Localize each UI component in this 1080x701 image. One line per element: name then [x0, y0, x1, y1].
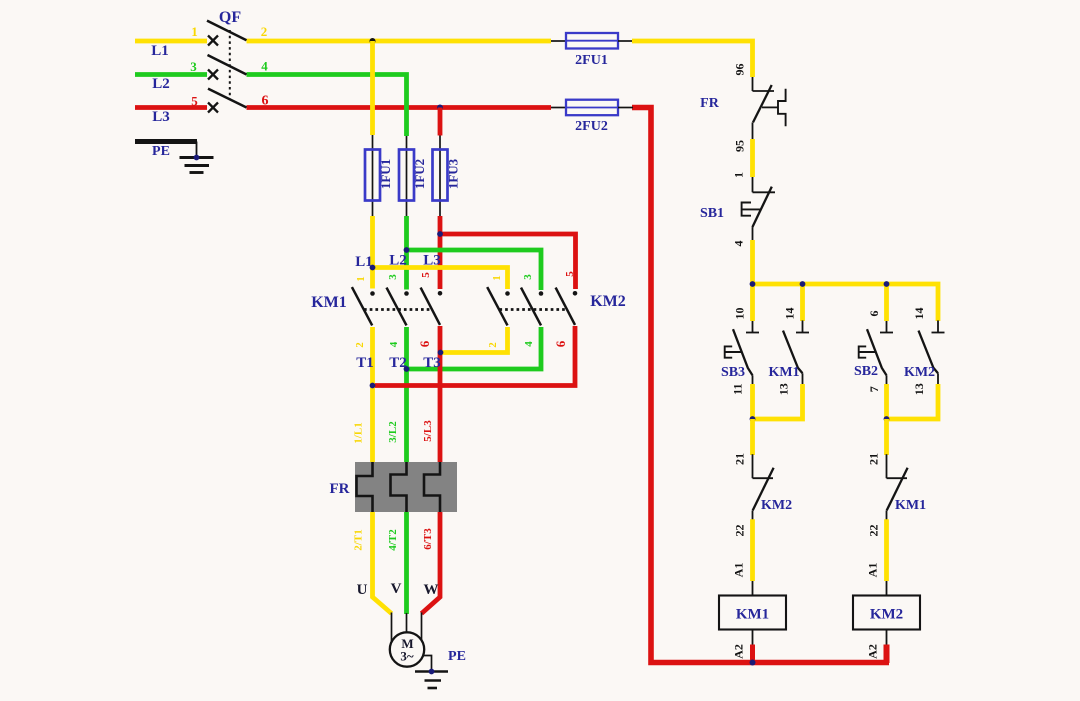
KM2 NC blade	[753, 468, 774, 511]
svg-text:L1: L1	[151, 43, 169, 59]
PE ground bars	[180, 158, 214, 173]
KM1 NC bottom lead	[886, 510, 888, 520]
KM1 aux bottom lead	[802, 373, 804, 385]
contactor KM2 pole1 dot	[505, 291, 510, 296]
svg-text:2: 2	[487, 342, 499, 348]
wire L1 yellow after QF to 2FU1	[247, 39, 552, 44]
svg-text:W: W	[424, 582, 439, 598]
node T3 crossover dot	[438, 350, 444, 356]
svg-text:21: 21	[732, 453, 746, 465]
svg-text:KM1: KM1	[311, 294, 347, 311]
svg-text:13: 13	[912, 383, 926, 395]
SB1 actuator bracket	[742, 203, 751, 216]
svg-text:2FU1: 2FU1	[575, 53, 608, 68]
svg-text:11: 11	[730, 384, 744, 395]
svg-text:SB2: SB2	[854, 364, 878, 379]
FR contact top lead	[752, 77, 754, 91]
KM2 NC bottom lead	[752, 510, 754, 520]
breaker QF linkage dashed	[229, 30, 231, 100]
svg-text:14: 14	[783, 308, 797, 320]
svg-text:KM2: KM2	[590, 293, 626, 310]
svg-text:4: 4	[261, 59, 268, 74]
PE bar	[135, 139, 197, 144]
svg-text:U: U	[357, 582, 368, 598]
svg-text:2: 2	[354, 342, 366, 348]
wire yellow drop to 1FU1	[370, 41, 375, 135]
contactor KM2 pole1 blade	[487, 287, 507, 325]
breaker QF pole 2 X contact	[208, 70, 218, 80]
contactor KM2 pole2 blade	[521, 288, 541, 326]
svg-text:1: 1	[732, 172, 746, 178]
fuse 2FU1 right lead	[618, 40, 632, 42]
node T2 dot	[404, 366, 410, 372]
fuse 1FU1 lead	[372, 135, 374, 216]
thermal relay FR block	[355, 462, 457, 512]
wire yellow KM2 NC to coil KM1	[750, 519, 755, 581]
svg-text:13: 13	[776, 383, 790, 395]
SB3 top lead	[752, 321, 754, 333]
breaker QF pole 1 blade	[207, 21, 247, 41]
wire red branch to KM2 pole3	[440, 234, 576, 289]
contactor KM2 pole3 blade	[556, 288, 575, 325]
svg-text:A2: A2	[732, 644, 746, 659]
SB1 actuator stem	[742, 208, 761, 210]
node bus dot 2	[800, 281, 806, 287]
wire red coil KM2 stub	[884, 645, 890, 664]
wire yellow KM2 pole1 crossover to T3	[441, 327, 508, 353]
svg-text:3: 3	[190, 59, 197, 74]
svg-text:A2: A2	[866, 644, 880, 659]
KM1 aux tick	[796, 332, 809, 334]
svg-text:21: 21	[866, 453, 880, 465]
fuse 2FU1 left lead	[551, 40, 566, 42]
wire red FR to W	[422, 512, 441, 614]
svg-text:PE: PE	[152, 144, 170, 159]
wire green 1FU2 to KM1 pole2	[404, 216, 409, 290]
KM1 NC top lead	[886, 454, 888, 478]
svg-text:A1: A1	[866, 563, 880, 578]
breaker QF pole 3 X contact	[208, 103, 218, 113]
svg-text:1FU1: 1FU1	[378, 159, 393, 189]
contactor KM1 pole2 dot	[404, 291, 409, 296]
motor PE lead	[424, 656, 432, 672]
svg-text:L2: L2	[389, 253, 407, 269]
fuse 1FU3 lead	[439, 136, 441, 217]
wire green branch to KM2 pole2	[407, 250, 542, 290]
svg-text:2FU2: 2FU2	[575, 119, 608, 134]
wire yellow branch to KM2 pole1	[373, 268, 508, 290]
wire yellow KM2 aux to node	[884, 384, 938, 419]
node green branch dot	[404, 247, 410, 253]
KM2 aux blade	[919, 331, 939, 374]
contactor KM1 pole2 blade	[387, 288, 407, 326]
svg-text:1FU2: 1FU2	[412, 159, 427, 189]
SB3 tick	[746, 332, 759, 334]
node T1 crossover dot	[370, 383, 376, 389]
wire yellow KM1 NC to coil KM2	[884, 519, 889, 581]
KM1 NC blade	[887, 468, 908, 511]
FR heater element 2	[391, 462, 407, 512]
svg-text:6/T3: 6/T3	[422, 528, 434, 550]
SB1 top lead	[752, 177, 754, 192]
svg-text:3: 3	[387, 274, 399, 280]
svg-text:SB1: SB1	[700, 206, 724, 221]
KM1 aux top lead	[802, 320, 804, 332]
wire yellow 95 segment	[750, 139, 755, 177]
svg-text:KM1: KM1	[895, 498, 926, 513]
motor lead U	[391, 613, 393, 644]
svg-text:L3: L3	[152, 109, 170, 125]
wire yellow FR to U	[373, 512, 392, 614]
coil KM2 bottom lead	[886, 630, 888, 647]
node bus dot 3	[884, 281, 890, 287]
node L3 branch dot	[437, 105, 443, 111]
wire yellow SB2 to node	[884, 384, 889, 421]
contactor KM2 pole2 dot	[539, 291, 544, 296]
wire yellow KM1 aux to node	[750, 384, 802, 419]
KM2 NC top lead	[752, 454, 754, 478]
KM1 aux blade	[783, 331, 803, 374]
svg-text:6: 6	[417, 340, 432, 347]
svg-text:L1: L1	[355, 254, 373, 270]
svg-text:L3: L3	[423, 253, 441, 269]
svg-text:7: 7	[867, 386, 881, 392]
svg-text:T3: T3	[423, 355, 441, 371]
breaker QF pole 3 blade	[208, 89, 247, 108]
node red branch dot	[437, 231, 443, 237]
svg-text:3: 3	[522, 274, 534, 280]
contactor KM1 pole3 dot	[438, 291, 443, 296]
FR thermal paddle	[778, 89, 786, 127]
contactor KM1 pole1 dot	[370, 291, 375, 296]
SB2 actuator bracket	[859, 346, 867, 357]
fuse 2FU1	[566, 33, 618, 49]
SB2 top lead	[886, 321, 888, 333]
KM2 aux tick	[932, 332, 945, 334]
FR heater element 3	[424, 462, 440, 512]
motor lead W	[421, 613, 423, 644]
svg-text:4: 4	[523, 341, 535, 347]
contactor KM2 pole3 dot	[573, 291, 578, 296]
node L1 branch dot	[370, 38, 376, 44]
svg-text:KM2: KM2	[870, 607, 903, 623]
svg-text:95: 95	[733, 140, 747, 152]
fuse 1FU3	[433, 150, 448, 201]
svg-text:5: 5	[420, 272, 432, 278]
svg-text:KM1: KM1	[736, 607, 769, 623]
wire red after 2FU2 down to bottom bus	[632, 108, 889, 663]
fuse 2FU2	[566, 100, 618, 116]
contactor KM2 linkage dashed	[499, 308, 566, 311]
contactor KM1 pole3 blade	[421, 288, 440, 325]
wire red KM1 pole3 down to FR	[438, 326, 443, 462]
wire green KM1 pole2 down to FR	[404, 327, 409, 462]
svg-text:5: 5	[564, 271, 576, 277]
svg-text:T2: T2	[389, 355, 407, 371]
svg-text:2/T1: 2/T1	[353, 529, 365, 550]
svg-text:L2: L2	[152, 76, 170, 92]
wire L3 red incoming	[135, 105, 207, 110]
svg-text:T1: T1	[356, 355, 374, 371]
fuse 2FU1 middle line	[566, 40, 618, 42]
coil KM1 top lead	[752, 581, 754, 596]
KM2 aux bottom lead	[937, 373, 939, 385]
svg-text:1/L1: 1/L1	[353, 422, 365, 443]
FR contact link to paddle	[762, 106, 778, 108]
svg-text:V: V	[391, 581, 402, 597]
wire green FR to V	[404, 512, 409, 614]
wire yellow SB1 to bus node	[750, 240, 755, 286]
PE ground stem	[196, 142, 198, 158]
FR heater element 1	[357, 462, 373, 512]
PE node dot	[194, 155, 200, 161]
svg-text:KM2: KM2	[904, 365, 935, 380]
wire red drop to 1FU3	[438, 108, 443, 136]
motor M circle	[390, 632, 424, 666]
SB3 actuator bracket	[725, 346, 733, 357]
svg-text:1FU3: 1FU3	[446, 158, 461, 189]
svg-text:4: 4	[732, 241, 746, 247]
wire yellow SB3 to node	[750, 384, 755, 421]
fuse 2FU2 middle line	[566, 107, 618, 109]
svg-text:6: 6	[553, 340, 568, 347]
svg-text:FR: FR	[700, 96, 720, 111]
svg-text:10: 10	[733, 308, 747, 320]
svg-text:3/L2: 3/L2	[387, 421, 399, 443]
wire red coil KM1 stub	[750, 645, 755, 664]
SB3 actuator stem	[725, 351, 743, 353]
wire L1 yellow after 2FU1 to control corner	[632, 41, 753, 77]
KM2 aux top lead	[937, 320, 939, 332]
wire yellow branch KM1 aux drop	[800, 284, 805, 321]
fuse 2FU2 left lead	[551, 107, 566, 109]
svg-text:4: 4	[388, 341, 400, 347]
svg-text:QF: QF	[219, 9, 241, 26]
svg-text:PE: PE	[448, 649, 466, 664]
contactor KM1 linkage dashed	[364, 308, 432, 311]
node seal-in dot 2	[884, 416, 890, 422]
wire L1 yellow incoming	[135, 39, 207, 44]
KM2 NC tick	[753, 477, 774, 479]
wire yellow control bus row	[753, 284, 939, 321]
SB2 bottom lead	[886, 375, 888, 385]
wire yellow branch SB2 drop	[884, 284, 889, 321]
wire yellow branch SB3 drop	[750, 284, 755, 321]
svg-text:22: 22	[732, 525, 746, 537]
wire green KM2 pole2 to T2	[407, 327, 542, 369]
FR contact tick	[753, 90, 775, 92]
fuse 1FU2 lead	[406, 136, 408, 216]
svg-text:5: 5	[191, 94, 198, 109]
node bus dot 1	[750, 281, 756, 287]
svg-text:96: 96	[733, 64, 747, 76]
fuse 1FU1	[365, 150, 380, 201]
breaker QF pole 1 X contact	[208, 36, 218, 46]
svg-text:2: 2	[261, 24, 268, 39]
wire L2 green after QF, corner down to 1FU2	[247, 75, 407, 137]
motor ground bars	[415, 672, 448, 689]
svg-text:22: 22	[866, 525, 880, 537]
svg-text:KM1: KM1	[768, 365, 799, 380]
svg-text:5/L3: 5/L3	[422, 420, 434, 442]
wire yellow KM1 pole1 down to FR	[370, 327, 375, 462]
node yellow branch dot	[370, 265, 376, 271]
SB3 bottom lead	[752, 375, 754, 385]
wire L2 green incoming	[135, 72, 207, 77]
coil KM1 bottom lead	[752, 630, 754, 647]
svg-text:1: 1	[491, 275, 503, 281]
coil KM2 top lead	[886, 581, 888, 596]
node A2 bus dot	[750, 660, 756, 666]
motor ground node dot	[429, 669, 435, 675]
FR contact bottom lead	[752, 122, 754, 140]
coil KM1 box	[719, 596, 786, 630]
svg-text:6: 6	[262, 94, 269, 109]
KM1 NC tick	[887, 477, 908, 479]
breaker QF pole 2 blade	[208, 55, 247, 75]
wire yellow 1FU1 to KM1 pole1	[370, 216, 375, 289]
svg-text:6: 6	[867, 311, 881, 317]
wire yellow to KM1 NC	[884, 419, 889, 455]
coil KM2 box	[853, 596, 920, 630]
SB1 tick	[753, 191, 776, 193]
svg-text:14: 14	[912, 308, 926, 320]
motor lead V	[406, 613, 408, 633]
wire yellow to KM2 NC	[750, 419, 755, 455]
node seal-in dot 1	[750, 416, 756, 422]
wire L3 red after QF to 2FU2	[247, 105, 552, 110]
fuse 2FU2 right lead	[618, 107, 633, 109]
wire red KM2 pole3 crossover to T1	[373, 326, 576, 386]
svg-text:4/T2: 4/T2	[387, 529, 399, 551]
svg-text:KM2: KM2	[761, 498, 792, 513]
svg-text:SB3: SB3	[721, 365, 745, 380]
SB1 bottom lead	[752, 227, 754, 241]
SB2 blade	[867, 329, 887, 375]
svg-text:3~: 3~	[400, 649, 414, 664]
FR contact blade	[753, 85, 772, 122]
SB2 tick	[880, 332, 893, 334]
SB2 actuator stem	[859, 351, 877, 353]
svg-text:1: 1	[355, 276, 367, 282]
SB3 blade	[733, 329, 753, 375]
wire red 1FU3 to KM1 pole3	[438, 216, 443, 289]
contactor KM1 pole1 blade	[352, 287, 372, 325]
svg-text:1: 1	[191, 24, 198, 39]
svg-text:FR: FR	[330, 481, 350, 497]
fuse 1FU2	[399, 150, 414, 201]
SB1 blade	[752, 187, 771, 228]
svg-text:A1: A1	[732, 563, 746, 578]
